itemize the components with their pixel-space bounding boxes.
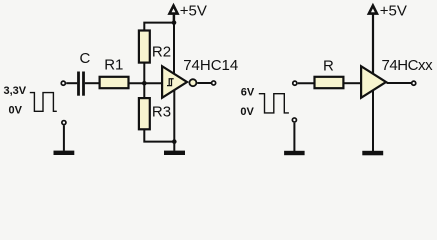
+5V symbol (right) — [369, 6, 377, 14]
wire R to buffer input — [345, 82, 361, 84]
inverter output bubble — [189, 79, 196, 86]
ground (inverter, left) — [164, 151, 185, 155]
svg-text:+5V: +5V — [180, 2, 207, 19]
wire +5V down to buffer top edge — [372, 15, 374, 75]
resistor R1 — [100, 77, 129, 88]
waveform (right input square wave) — [259, 94, 289, 113]
junction dot R1/R2/R3 node — [142, 81, 147, 86]
svg-text:R1: R1 — [104, 57, 123, 74]
wire +5V rail down to inverter top edge — [173, 23, 175, 74]
svg-text:0V: 0V — [9, 105, 23, 117]
svg-text:3,3V: 3,3V — [4, 85, 27, 97]
wire terminal to R — [298, 82, 314, 84]
junction dot +5V rail — [172, 20, 177, 25]
input terminal (right, ground side) — [292, 118, 296, 122]
wire terminal to ground (left input) — [63, 125, 65, 150]
wire R3 bottom to ground node — [144, 129, 174, 142]
buffer U2 74HCxx — [361, 66, 386, 98]
wire terminal to ground (right input) — [293, 123, 295, 151]
resistor R — [315, 77, 344, 88]
svg-text:R3: R3 — [152, 103, 171, 120]
ground (buffer, right) — [362, 151, 383, 156]
schmitt trigger hysteresis glyph — [167, 79, 174, 86]
junction dot ground node — [172, 139, 177, 144]
capacitor C — [77, 72, 85, 96]
inverter U1 74HC14 — [162, 66, 187, 98]
wire buffer output — [387, 82, 412, 84]
waveform (left input square wave) — [30, 93, 57, 112]
wire R2 top to +5V rail — [144, 23, 174, 30]
+5V symbol (left) — [170, 6, 178, 14]
wire buffer bottom edge to ground — [372, 90, 374, 151]
output terminal (right) — [412, 81, 416, 85]
svg-text:C: C — [80, 50, 91, 67]
wire R1 to inverter input — [130, 82, 162, 84]
svg-text:6V: 6V — [241, 87, 255, 99]
svg-text:R2: R2 — [152, 43, 171, 60]
input terminal (left, signal) — [61, 81, 65, 85]
resistor R3 — [139, 98, 150, 129]
ground (left input) — [54, 151, 75, 155]
svg-text:74HCxx: 74HCxx — [382, 57, 434, 74]
wire terminal to C — [66, 82, 77, 84]
svg-text:R: R — [323, 58, 334, 75]
output terminal (left) — [212, 81, 216, 85]
svg-text:+5V: +5V — [380, 2, 407, 19]
input terminal (right, signal) — [293, 81, 297, 85]
wire bubble to output terminal — [197, 82, 211, 84]
svg-text:0V: 0V — [240, 106, 254, 118]
wire inverter bottom edge to ground — [173, 89, 175, 151]
wire R2 bottom to R3 top through node — [143, 63, 145, 98]
svg-text:74HC14: 74HC14 — [183, 57, 238, 74]
ground (right input) — [284, 151, 305, 155]
input terminal (left, ground side) — [62, 121, 66, 125]
wire C to R1 — [85, 82, 99, 84]
resistor R2 — [139, 31, 150, 63]
